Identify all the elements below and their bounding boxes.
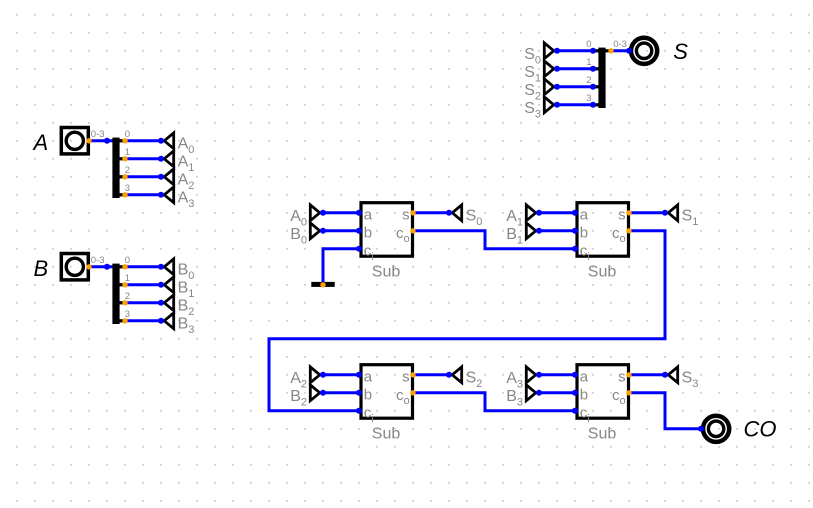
svg-text:b: b [364,387,372,404]
svg-text:0: 0 [586,39,591,50]
wire A bit 2 [125,175,161,178]
svg-text:0: 0 [125,129,130,140]
tunnel S1 source [524,61,560,84]
svg-text:2: 2 [125,165,130,176]
wire U1.ci to ground [323,249,359,283]
splitter A 0-3 [91,129,130,198]
wire A bit 1 [125,157,161,160]
svg-text:s: s [402,369,410,386]
svg-text:0-3: 0-3 [613,39,627,50]
svg-text:s: s [618,207,626,224]
tunnel B0 to U1 [290,223,326,246]
svg-text:B: B [34,256,49,281]
subtractor U3 Sub [356,365,416,443]
svg-text:0-3: 0-3 [91,129,105,140]
svg-text:0: 0 [125,255,130,266]
svg-text:Sub: Sub [588,263,617,280]
svg-text:1: 1 [125,147,130,158]
svg-text:a: a [364,369,373,386]
tunnel S3 source [524,97,560,120]
tunnel B1 to U2 [506,223,542,246]
wire U1.s to S0 [413,211,449,214]
tunnel A1 [158,151,194,174]
wire S bit 1 [557,67,593,70]
svg-text:1: 1 [586,57,591,68]
svg-text:s: s [618,369,626,386]
subtractor U4 Sub [572,365,632,443]
wire B2 to U3.b [323,391,359,394]
svg-text:Sub: Sub [372,425,401,442]
wire U3.s to S2 [413,373,449,376]
output S [626,38,688,64]
wire B bit 1 [125,283,161,286]
tunnel S2 from U3 [446,367,482,390]
svg-text:Sub: Sub [588,425,617,442]
splitter B 0-3 [91,255,130,324]
wire U4.s to S3 [629,373,665,376]
wire U4.co to CO [629,393,701,429]
merger S 0-3 [586,39,627,108]
wire B bit 2 [125,301,161,304]
tunnel B0 [158,259,194,282]
wire S bit 2 [557,85,593,88]
svg-text:Sub: Sub [372,263,401,280]
wire A bit 3 [125,193,161,196]
wire B3 to U4.b [539,391,575,394]
wire B bit 0 [125,265,161,268]
tunnel B3 to U4 [506,385,542,408]
wire S bit 3 [557,103,593,106]
output CO [698,416,777,442]
tunnel A0 [158,133,194,156]
tunnel A2 [158,169,194,192]
ground [311,282,334,288]
wire S bit 0 [557,49,593,52]
tunnel B3 [158,313,194,336]
svg-text:CO: CO [744,416,777,441]
wire U3.co to U4.ci [413,393,575,411]
tunnel S0 source [524,43,560,66]
tunnel A3 [158,187,194,210]
tunnel A1 to U2 [506,205,542,228]
tunnel A3 to U4 [506,367,542,390]
svg-text:A: A [32,130,49,155]
input B [34,254,92,282]
svg-text:S: S [673,39,688,64]
wire A1 to U2.a [539,211,575,214]
wire A0 to U1.a [323,211,359,214]
svg-text:a: a [364,207,373,224]
wire B bit 3 [125,319,161,322]
svg-text:2: 2 [125,291,130,302]
tunnel B1 [158,277,194,300]
svg-text:1: 1 [125,273,130,284]
wire U1.co to U2.ci [413,231,575,249]
tunnel A2 to U3 [290,367,326,390]
svg-text:0-3: 0-3 [91,255,105,266]
wire B0 to U1.b [323,229,359,232]
wire U2.s to S1 [629,211,665,214]
tunnel B2 to U3 [290,385,326,408]
svg-text:b: b [580,225,588,242]
svg-text:a: a [580,369,589,386]
wire B bus [89,265,113,268]
subtractor U2 Sub [572,203,632,281]
tunnel A0 to U1 [290,205,326,228]
tunnel B2 [158,295,194,318]
svg-text:3: 3 [125,309,130,320]
wire B1 to U2.b [539,229,575,232]
input A [32,128,92,156]
svg-text:3: 3 [586,93,591,104]
tunnel S1 from U2 [662,205,698,228]
wire A bus [89,139,113,142]
svg-text:s: s [402,207,410,224]
svg-text:2: 2 [586,75,591,86]
svg-text:b: b [364,225,372,242]
svg-text:b: b [580,387,588,404]
wire A2 to U3.a [323,373,359,376]
wire A bit 0 [125,139,161,142]
svg-text:3: 3 [125,183,130,194]
tunnel S2 source [524,79,560,102]
wire A3 to U4.a [539,373,575,376]
wire S bus [611,49,629,52]
tunnel S0 from U1 [446,205,482,228]
subtractor U1 Sub [356,203,416,281]
wire U2.co to U3.ci [269,231,665,411]
tunnel S3 from U4 [662,367,698,390]
svg-text:a: a [580,207,589,224]
